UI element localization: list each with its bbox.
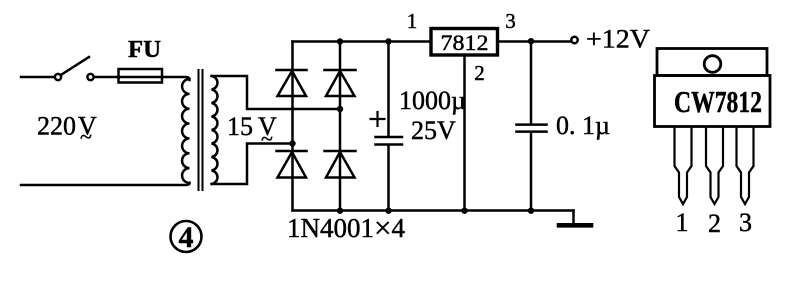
node output rail C2 xyxy=(528,38,534,44)
wire secondary top lead to bridge right column xyxy=(212,76,339,109)
wire fuse to transformer primary xyxy=(162,77,190,80)
IC package leg 2 xyxy=(706,128,723,204)
svg-text:25V: 25V xyxy=(411,116,456,145)
svg-text:1: 1 xyxy=(676,208,689,237)
switch S xyxy=(55,57,94,80)
svg-text:~: ~ xyxy=(80,124,92,149)
svg-text:0. 1µ: 0. 1µ xyxy=(556,111,610,140)
node secondary bottom to left column xyxy=(289,140,295,146)
wire top rail to 7812 xyxy=(293,40,432,43)
IC package mounting hole xyxy=(704,56,721,73)
node top rail C1 xyxy=(385,38,391,44)
svg-text:1: 1 xyxy=(407,9,418,33)
wire switch to fuse xyxy=(94,76,118,79)
wire 7812 pin2 down xyxy=(463,55,466,211)
IC package leg 1 xyxy=(675,128,692,204)
wire bridge left column xyxy=(291,42,294,211)
svg-text:~: ~ xyxy=(261,126,273,151)
svg-text:4: 4 xyxy=(179,221,194,254)
node bottom rail pin2 xyxy=(461,208,467,214)
regulator U1 7812 box xyxy=(431,29,498,56)
svg-text:2: 2 xyxy=(474,61,485,85)
svg-text:3: 3 xyxy=(739,208,752,237)
diode D4 bottom-right xyxy=(325,151,356,178)
fuse FU xyxy=(119,69,163,83)
IC package body xyxy=(655,76,771,127)
wire secondary bottom lead to bridge left column xyxy=(212,144,291,185)
svg-text:CW7812: CW7812 xyxy=(674,84,762,119)
diode D3 bottom-left xyxy=(277,151,307,178)
wire 7812 output rail xyxy=(498,40,572,43)
label 220V xyxy=(37,112,97,150)
wire bottom rail xyxy=(293,209,574,212)
terminal output xyxy=(571,37,577,43)
node bottom rail right column xyxy=(337,208,343,214)
IC package CW7812 tab xyxy=(657,49,767,76)
svg-text:15: 15 xyxy=(227,112,253,141)
ground xyxy=(559,211,591,226)
node bottom rail C2 xyxy=(528,208,534,214)
node bottom rail C1 xyxy=(385,208,391,214)
diode D1 top-left xyxy=(277,70,307,96)
node top rail right column xyxy=(337,38,343,44)
transformer T primary winding xyxy=(182,79,189,183)
diode D2 top-right xyxy=(325,70,356,96)
svg-text:220: 220 xyxy=(37,112,76,141)
wire bridge right column xyxy=(339,42,342,212)
transformer core xyxy=(199,70,203,190)
svg-text:7812: 7812 xyxy=(441,30,489,55)
svg-text:2: 2 xyxy=(708,209,721,238)
svg-text:1N4001×4: 1N4001×4 xyxy=(287,210,405,245)
wire AC input bottom xyxy=(21,183,190,185)
svg-text:+12V: +12V xyxy=(586,25,650,54)
capacitor C2 0.1u xyxy=(517,42,547,211)
transformer secondary winding xyxy=(212,76,218,184)
svg-text:FU: FU xyxy=(128,37,161,63)
svg-text:3: 3 xyxy=(505,9,516,33)
IC package leg 3 xyxy=(737,128,754,204)
node secondary top to right column xyxy=(337,106,343,112)
svg-text:1000µ: 1000µ xyxy=(399,86,466,115)
circled figure number 4 xyxy=(171,221,202,252)
wire AC input top xyxy=(21,76,54,79)
capacitor C1 1000u 25V electrolytic xyxy=(371,42,403,211)
label 15V xyxy=(227,112,277,151)
